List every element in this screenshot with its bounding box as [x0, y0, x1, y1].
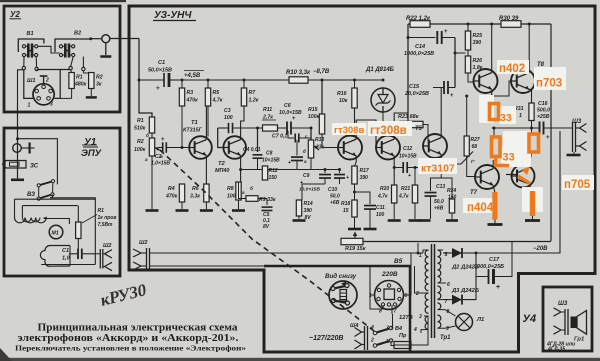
- speaker return wire: [476, 131, 560, 253]
- T2 collector down: [240, 155, 242, 182]
- svg-text:С14: С14: [415, 44, 425, 50]
- resistor R14 390: [296, 200, 301, 216]
- capacitor C9 10,0x15V: [324, 170, 326, 174]
- svg-text:С2: С2: [155, 154, 162, 160]
- resistor R1 1k wirewound: [77, 206, 79, 222]
- resistor R20 4,7k: [392, 185, 397, 203]
- svg-text:+: +: [288, 160, 291, 166]
- output jack to ground: [102, 35, 110, 43]
- capacitor C1 1,0: [77, 249, 79, 259]
- svg-text:20,0×25В: 20,0×25В: [404, 91, 429, 97]
- resistor R17 390: [352, 166, 357, 184]
- svg-text:ЭПУ: ЭПУ: [81, 148, 103, 159]
- svg-text:R4: R4: [168, 186, 175, 192]
- svg-text:15: 15: [343, 208, 349, 214]
- svg-text:10×15В: 10×15В: [262, 158, 280, 164]
- wire Sh2 lower: [150, 266, 371, 295]
- bottom wire: [41, 264, 95, 266]
- wire U2 to amplifier input: [109, 38, 139, 40]
- svg-text:1,0×15В: 1,0×15В: [151, 161, 170, 167]
- svg-text:+: +: [408, 173, 411, 179]
- svg-text:R2: R2: [96, 75, 103, 81]
- svg-text:10,0×15В: 10,0×15В: [299, 187, 320, 193]
- svg-text:1000,0×25В: 1000,0×25В: [404, 51, 434, 57]
- wire Sh2 to transformer (upper): [150, 252, 424, 254]
- ground under pickup: [11, 179, 24, 182]
- wire from U2 down into U1: [17, 103, 19, 128]
- svg-text:8V: 8V: [263, 224, 270, 230]
- capacitor C5 0,1: [266, 199, 268, 206]
- resistor R9 33k: [239, 182, 247, 199]
- svg-text:Д3 Д242Б: Д3 Д242Б: [451, 288, 479, 294]
- svg-text:+: +: [300, 180, 303, 186]
- transistor T2 MP40: [223, 136, 246, 159]
- svg-text:3: 3: [50, 102, 53, 108]
- resistor R8 100: [236, 182, 241, 200]
- resistor R3 470k: [181, 80, 183, 88]
- svg-text:электрофонов «Аккорд» и «Ак: электрофонов «Аккорд» и «Аккорд-201».: [18, 333, 240, 344]
- transistor T4: [376, 136, 400, 160]
- sound pickup ZS: [3, 161, 27, 169]
- resistor R1 510k: [149, 117, 154, 133]
- T7 collector: [492, 160, 494, 169]
- svg-text:п402: п402: [499, 63, 525, 75]
- orange link wire: [496, 157, 509, 166]
- orange emitter bar B: [530, 191, 535, 216]
- svg-text:1: 1: [28, 103, 31, 109]
- top supply rail: [408, 23, 551, 25]
- svg-text:127В: 127В: [399, 315, 413, 321]
- svg-text:Ш4: Ш4: [350, 323, 358, 329]
- svg-text:С4 0,01: С4 0,01: [243, 147, 261, 153]
- svg-text:С10: С10: [328, 187, 337, 193]
- wire from rail down x=408: [407, 24, 409, 125]
- svg-text:Гр1: Гр1: [574, 337, 584, 343]
- wire rail to -20V drop: [550, 24, 552, 241]
- resistor R25 390: [467, 24, 469, 31]
- svg-text:100: 100: [227, 194, 236, 200]
- unit box U2: [4, 6, 120, 112]
- T3 collector to T4 base: [356, 120, 382, 148]
- transistor T6: [474, 69, 498, 93]
- unit box U3-UNCH (main amplifier): [129, 6, 595, 352]
- svg-text:М1: М1: [52, 231, 59, 237]
- svg-text:а: а: [242, 190, 245, 195]
- -20V rail: [341, 241, 551, 243]
- svg-text:1к пров: 1к пров: [98, 215, 117, 221]
- terminal bus in U2: [23, 57, 25, 67]
- svg-text:R23 68к: R23 68к: [398, 114, 420, 120]
- output node to C16: [492, 127, 539, 129]
- T1 emitter wire: [205, 155, 207, 184]
- svg-text:7,5Вт: 7,5Вт: [98, 222, 114, 228]
- svg-text:Т1: Т1: [191, 120, 198, 126]
- svg-text:~127/220В: ~127/220В: [309, 335, 343, 342]
- resistor R10 3,3k: [289, 77, 308, 83]
- svg-text:68: 68: [472, 144, 478, 150]
- svg-text:а: а: [304, 159, 307, 164]
- svg-text:R18: R18: [341, 201, 350, 207]
- svg-text:R13: R13: [315, 137, 324, 143]
- svg-text:б: б: [303, 148, 306, 154]
- pickup jack: [13, 144, 22, 153]
- T7 emitter down: [493, 185, 495, 192]
- svg-text:R12: R12: [269, 168, 278, 174]
- svg-text:R21: R21: [401, 186, 410, 192]
- svg-text:1: 1: [419, 253, 422, 259]
- svg-text:−8,7В: −8,7В: [313, 69, 330, 75]
- svg-text:С17: С17: [489, 257, 500, 263]
- capacitor C2 1,0x15V: [158, 147, 163, 149]
- svg-text:R5: R5: [213, 90, 220, 96]
- svg-text:4,7к: 4,7к: [377, 194, 388, 200]
- svg-text:В5: В5: [394, 258, 403, 265]
- svg-text:9: 9: [446, 326, 449, 332]
- svg-text:R14: R14: [304, 201, 313, 207]
- svg-text:В2: В2: [74, 31, 81, 37]
- transistor T3: [338, 136, 362, 160]
- wire V2 top to output jack: [91, 38, 102, 40]
- resistor R21 4,7k: [414, 168, 416, 186]
- transistor T7 pair (bottom right): [512, 165, 535, 188]
- resistor R4 470k: [179, 184, 184, 202]
- lamp L1: [456, 314, 473, 331]
- T6 emitter down: [491, 89, 493, 102]
- svg-text:2: 2: [45, 78, 49, 84]
- svg-text:С11: С11: [376, 205, 385, 211]
- svg-text:6: 6: [447, 282, 450, 288]
- resistor R1 480k (U2): [71, 70, 72, 73]
- svg-text:500,0: 500,0: [537, 108, 550, 114]
- wire bus y=169.5: [258, 169, 340, 171]
- svg-text:R1: R1: [76, 75, 83, 81]
- svg-text:R17: R17: [360, 168, 369, 174]
- motor M1: [49, 225, 63, 239]
- potentiometer R19 15k: [341, 238, 363, 244]
- potentiometer R13 33k: [310, 128, 312, 140]
- svg-text:Ш2: Ш2: [103, 243, 111, 249]
- svg-text:10,0×15В: 10,0×15В: [279, 110, 302, 116]
- svg-text:100: 100: [376, 212, 385, 218]
- svg-text:3к: 3к: [96, 82, 102, 88]
- potentiometer R2 100k (volume): [151, 133, 153, 138]
- svg-text:3,3к: 3,3к: [190, 194, 200, 200]
- svg-text:ЗС: ЗС: [30, 164, 39, 170]
- T6-T8 base coupling: [492, 81, 517, 96]
- wire to V3: [18, 139, 58, 185]
- T5 emitter: [440, 154, 442, 167]
- orange resistor mark 1: [490, 104, 499, 120]
- svg-text:220В: 220В: [381, 271, 398, 278]
- motor supply loop wires: [15, 198, 96, 200]
- svg-text:R25: R25: [473, 33, 483, 39]
- svg-text:R20: R20: [380, 186, 389, 192]
- svg-text:а: а: [145, 157, 148, 162]
- svg-text:2: 2: [415, 291, 419, 297]
- orange arrow in transistor: [518, 176, 530, 184]
- svg-text:1: 1: [519, 113, 522, 119]
- svg-text:УЗ-УНЧ: УЗ-УНЧ: [154, 10, 192, 21]
- svg-text:470к: 470к: [165, 194, 178, 200]
- unit box U1 EPU: [4, 128, 120, 276]
- svg-text:33: 33: [500, 112, 512, 124]
- motor winding loops: [15, 218, 47, 223]
- capacitor C10 50,0x6V: [339, 170, 341, 174]
- wire V1-V2: [38, 46, 60, 53]
- transformer Tr1: [431, 244, 433, 338]
- mechanical link dashed: [160, 150, 374, 331]
- svg-text:+: +: [161, 137, 165, 143]
- T4 emitter to R20: [393, 156, 395, 185]
- wire input down: [138, 39, 140, 81]
- svg-text:Т7: Т7: [470, 190, 478, 196]
- svg-text:×25В: ×25В: [537, 114, 550, 120]
- svg-text:4ГД-35: 4ГД-35: [547, 347, 565, 353]
- svg-text:б: б: [146, 132, 149, 138]
- svg-text:Л1: Л1: [476, 317, 484, 323]
- svg-text:С7 0,1: С7 0,1: [272, 134, 287, 140]
- svg-text:+: +: [292, 116, 296, 122]
- svg-text:100к: 100к: [134, 147, 146, 153]
- svg-text:б: б: [250, 185, 253, 191]
- svg-text:R10 3,3к: R10 3,3к: [286, 70, 311, 76]
- svg-text:−20В: −20В: [533, 246, 548, 252]
- capacitor C11 100: [355, 192, 371, 204]
- svg-text:R6: R6: [192, 186, 199, 192]
- svg-text:С15: С15: [409, 84, 420, 90]
- svg-text:t°: t°: [471, 159, 475, 165]
- svg-text:470к: 470к: [186, 98, 199, 104]
- svg-text:3: 3: [419, 314, 422, 320]
- svg-text:4: 4: [413, 327, 417, 333]
- svg-text:С16: С16: [538, 101, 548, 107]
- svg-text:Тр1: Тр1: [440, 335, 451, 341]
- svg-text:п703: п703: [536, 78, 562, 90]
- capacitor C1 50,0x15V: [139, 79, 164, 81]
- resistor R18 15: [352, 200, 357, 217]
- resistor R7 1,2k: [243, 80, 245, 88]
- svg-text:10к: 10к: [339, 98, 348, 104]
- wire loop around Sh1: [24, 70, 34, 99]
- resistor R6 3,3k: [204, 184, 209, 202]
- svg-text:С8: С8: [266, 151, 273, 157]
- svg-text:R26: R26: [473, 58, 483, 64]
- svg-text:10×15В: 10×15В: [399, 154, 417, 160]
- svg-text:Переключатель установлен в пол: Переключатель установлен в положение «Эл…: [15, 344, 246, 353]
- svg-text:кт3107: кт3107: [421, 163, 455, 175]
- orange resistor mark 2: [492, 137, 501, 157]
- svg-text:Д1 Д814Б: Д1 Д814Б: [365, 67, 395, 73]
- svg-text:С1: С1: [62, 248, 69, 254]
- svg-text:390: 390: [304, 208, 313, 214]
- svg-text:+6В: +6В: [434, 206, 444, 212]
- svg-text:4,7к: 4,7к: [398, 194, 409, 200]
- svg-text:У2: У2: [10, 10, 20, 19]
- svg-text:У1: У1: [84, 137, 97, 148]
- svg-text:R2: R2: [137, 139, 144, 145]
- svg-text:R19 15к: R19 15к: [345, 246, 367, 252]
- supply rail +4,5V: [178, 79, 383, 81]
- svg-text:510к: 510к: [134, 126, 146, 132]
- svg-text:Т2: Т2: [218, 161, 226, 167]
- pair collector wire: [530, 152, 532, 167]
- svg-text:+: +: [450, 93, 454, 99]
- svg-text:390: 390: [473, 40, 482, 46]
- svg-text:Вид снизу: Вид снизу: [325, 273, 357, 280]
- svg-text:КТ315Г: КТ315Г: [183, 128, 203, 134]
- svg-text:R1: R1: [98, 208, 105, 214]
- svg-text:с: с: [305, 134, 308, 139]
- svg-text:R11: R11: [263, 107, 272, 113]
- svg-text:+: +: [346, 175, 349, 181]
- input wire in U1: [17, 128, 19, 179]
- svg-text:У4: У4: [523, 313, 537, 325]
- svg-text:+: +: [444, 29, 448, 35]
- svg-text:С3: С3: [224, 108, 231, 114]
- orange resistor mark 3: [529, 134, 539, 152]
- svg-text:6: 6: [405, 293, 408, 299]
- svg-text:+4,5В: +4,5В: [184, 73, 201, 79]
- svg-text:С12: С12: [403, 146, 412, 152]
- svg-text:Ш2: Ш2: [139, 240, 147, 246]
- wire junction down to C4/C8 branch: [257, 128, 259, 152]
- svg-text:п404: п404: [467, 202, 494, 214]
- svg-text:гт308в: гт308в: [370, 125, 407, 137]
- wire to U1: [18, 70, 24, 103]
- svg-text:Принципиальная электрическая: Принципиальная электрическая схема: [38, 323, 238, 334]
- selector pin1 loop: [370, 295, 392, 314]
- svg-text:R1: R1: [137, 118, 144, 124]
- power sub-box: [264, 266, 410, 352]
- svg-text:50,0: 50,0: [330, 194, 340, 200]
- svg-text:гт308в: гт308в: [334, 125, 364, 136]
- svg-text:Ш3: Ш3: [572, 119, 582, 125]
- svg-text:2: 2: [370, 338, 374, 344]
- T4 collector up: [394, 113, 408, 139]
- svg-text:8V: 8V: [305, 215, 312, 221]
- T8 emitter to R31: [529, 89, 531, 103]
- V3 output wires: [50, 198, 95, 265]
- svg-text:Т5: Т5: [415, 126, 423, 132]
- svg-text:R27: R27: [471, 137, 480, 143]
- pair emitter down: [530, 185, 533, 191]
- page edge marks: [0, 0, 126, 2]
- selector pin6 wire up: [404, 253, 412, 295]
- svg-text:МП40: МП40: [215, 168, 229, 174]
- svg-text:п705: п705: [564, 179, 591, 191]
- svg-text:+: +: [496, 284, 500, 291]
- resistor R12 150: [262, 166, 267, 180]
- svg-text:R7: R7: [249, 90, 257, 96]
- svg-text:480к: 480к: [74, 82, 87, 88]
- svg-text:50,0×15В: 50,0×15В: [148, 68, 172, 74]
- svg-text:50,0: 50,0: [434, 199, 444, 205]
- node: input to R1: [139, 80, 152, 117]
- svg-text:С13: С13: [436, 184, 445, 190]
- white-out patches: [497, 60, 529, 74]
- svg-text:R3: R3: [187, 90, 194, 96]
- svg-text:Ш3: Ш3: [558, 301, 568, 307]
- junction to selector: [417, 252, 420, 255]
- T1 collector wire: [206, 137, 208, 140]
- T3 emitter chain R17 R18: [355, 156, 357, 162]
- svg-text:1,0: 1,0: [62, 256, 70, 262]
- svg-text:4,7к: 4,7к: [212, 98, 223, 104]
- orange emitter bar A: [492, 192, 497, 220]
- svg-text:7: 7: [394, 309, 397, 315]
- svg-text:С9: С9: [303, 173, 310, 179]
- svg-text:R8: R8: [227, 186, 234, 192]
- svg-text:В1: В1: [27, 31, 34, 37]
- svg-text:100: 100: [224, 115, 233, 121]
- svg-text:150: 150: [269, 175, 278, 181]
- svg-text:Пр: Пр: [399, 333, 407, 339]
- svg-text:1,2к: 1,2к: [249, 98, 259, 104]
- svg-text:+6В: +6В: [330, 200, 340, 206]
- svg-text:ВЗ: ВЗ: [27, 192, 35, 198]
- svg-text:33: 33: [503, 152, 515, 164]
- svg-text:С1: С1: [158, 60, 165, 66]
- svg-text:100к: 100к: [308, 114, 320, 120]
- svg-text:+: +: [546, 135, 550, 141]
- resistor R26 1,8k: [467, 50, 469, 56]
- svg-text:+: +: [156, 85, 160, 92]
- T5 collector up to C15: [440, 88, 442, 138]
- unit box U4 (speaker): [543, 287, 592, 351]
- svg-text:В4: В4: [395, 326, 402, 332]
- resistor R5 4,7k: [207, 80, 209, 88]
- svg-text:390: 390: [360, 175, 369, 181]
- svg-text:R16: R16: [337, 91, 347, 97]
- wire C14/C15 to R25/R26: [454, 38, 456, 88]
- svg-text:С6: С6: [284, 103, 291, 109]
- svg-text:Ш1: Ш1: [27, 78, 35, 84]
- T2 emitter wire up to R7: [241, 106, 244, 140]
- svg-text:R15: R15: [308, 107, 318, 113]
- resistor R2 3k (U2): [83, 71, 91, 73]
